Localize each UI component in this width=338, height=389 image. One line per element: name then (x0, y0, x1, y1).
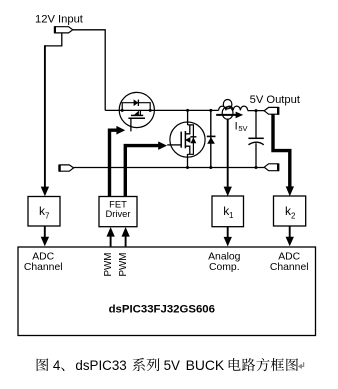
label ADC Channel (left) (24, 252, 63, 273)
node: diode top junction dot (209, 109, 212, 112)
block U1 dsPIC33FJ32GS606 (18, 247, 316, 336)
label "5V Output" (250, 94, 301, 106)
svg-text:5V Output: 5V Output (250, 94, 301, 106)
svg-text:5V: 5V (238, 124, 247, 133)
wire: input connector to top rail (right then down) (73, 30, 105, 111)
label "12V Input" (35, 14, 84, 26)
svg-text:12V Input: 12V Input (35, 14, 84, 26)
label dsPIC33FJ32GS606 (109, 303, 215, 315)
wire: top rail (switch node row, 12V to inductor) (105, 109, 218, 111)
label Analog Comp. (208, 252, 241, 273)
inductor L1 (219, 106, 248, 110)
svg-text:dsPIC33: dsPIC33 (75, 358, 126, 373)
node: switch-node junction dot (186, 109, 189, 112)
svg-text:Channel: Channel (24, 262, 63, 273)
svg-text:BUCK: BUCK (186, 357, 225, 373)
wire: lower return rail (74, 167, 265, 169)
block k2 (output-voltage feedback gain) (274, 196, 306, 226)
wire: PWM1 thick gate-drive line (FET Driver to Q1 gate) (110, 126, 126, 196)
svg-text:7: 7 (45, 212, 50, 221)
node: rail junction dots (186, 166, 258, 169)
svg-text:2: 2 (291, 212, 296, 221)
arrow: dsPIC PWM out to FET Driver (1) (107, 227, 115, 246)
arrow: I5V current direction (216, 112, 243, 119)
transistor Q2 (low-side N-MOSFET, circled) (167, 122, 205, 157)
svg-text:5V: 5V (164, 358, 180, 373)
label I5V (235, 120, 248, 133)
svg-text:dsPIC33FJ32GS606: dsPIC33FJ32GS606 (109, 303, 215, 315)
label PWM (pin 2, rotated) (118, 253, 129, 277)
arrow: k7 output into dsPIC ADC (41, 226, 49, 246)
connector J2 (5V output terminal) (264, 107, 278, 115)
svg-text:I: I (235, 120, 238, 132)
pilcrow/return mark (298, 362, 304, 369)
wire: current-sense signal down to k1 (224, 119, 232, 196)
wire: inductor to output connector (248, 110, 265, 112)
wire: Q2 source to lower rail (187, 154, 189, 168)
transistor Q1 (high-side P-MOSFET, circled) (119, 92, 154, 131)
wire: PWM2 thick gate-drive line (FET Driver to Q2 gate) (125, 141, 167, 196)
block FET Driver (99, 197, 137, 227)
block k1 (current feedback gain) (212, 196, 244, 227)
wire: Q2 drain from top rail (187, 110, 189, 125)
svg-text:Driver: Driver (106, 208, 131, 219)
connector J3 (return terminal, left) (60, 165, 74, 172)
arrow: k1 output into dsPIC analog comparator (224, 227, 232, 247)
label ADC Channel (right) (270, 252, 309, 273)
arrow: k2 output into dsPIC ADC (286, 226, 294, 246)
diode D1 (freewheeling diode) (207, 110, 216, 167)
current sense transformer (loop over L1) (222, 100, 233, 120)
connector J1 (12V input terminal) (55, 26, 73, 33)
block k7 (input-voltage feedback gain) (28, 197, 60, 227)
svg-text:PWM: PWM (103, 253, 114, 277)
svg-text:1: 1 (229, 211, 234, 220)
wire: thick output feedback path to k2 (273, 114, 294, 196)
svg-text:Comp.: Comp. (209, 262, 240, 273)
label PWM (pin 1, rotated) (103, 253, 114, 277)
connector J4 (return terminal, right) (264, 163, 278, 171)
svg-text:4: 4 (53, 358, 61, 373)
caption: 图4、dsPIC33系列5V BUCK电路方框图 (37, 357, 298, 373)
wire: input connector stub down-left to k7 sense line (45, 33, 62, 46)
capacitor C1 (output cap) (248, 111, 263, 168)
node: output node dot at capacitor tap (255, 109, 258, 112)
arrow: dsPIC PWM out to FET Driver (2) (122, 227, 130, 246)
svg-text:PWM: PWM (118, 253, 129, 277)
wire: input voltage sense line down to k7 (41, 45, 49, 196)
svg-text:Channel: Channel (270, 262, 309, 273)
